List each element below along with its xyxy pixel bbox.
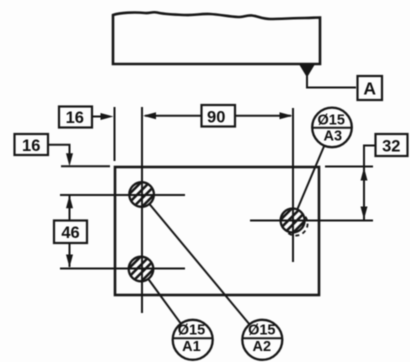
- svg-text:Ø15: Ø15: [317, 113, 344, 129]
- svg-text:90: 90: [207, 108, 225, 126]
- svg-text:Ø15: Ø15: [248, 323, 275, 339]
- svg-text:A3: A3: [324, 129, 343, 145]
- svg-text:A2: A2: [253, 339, 272, 355]
- svg-text:46: 46: [61, 224, 79, 242]
- svg-text:32: 32: [382, 138, 400, 156]
- svg-text:16: 16: [22, 137, 40, 155]
- svg-text:A1: A1: [182, 339, 201, 355]
- svg-text:16: 16: [66, 109, 84, 127]
- svg-text:A: A: [363, 79, 376, 99]
- svg-text:Ø15: Ø15: [178, 323, 205, 339]
